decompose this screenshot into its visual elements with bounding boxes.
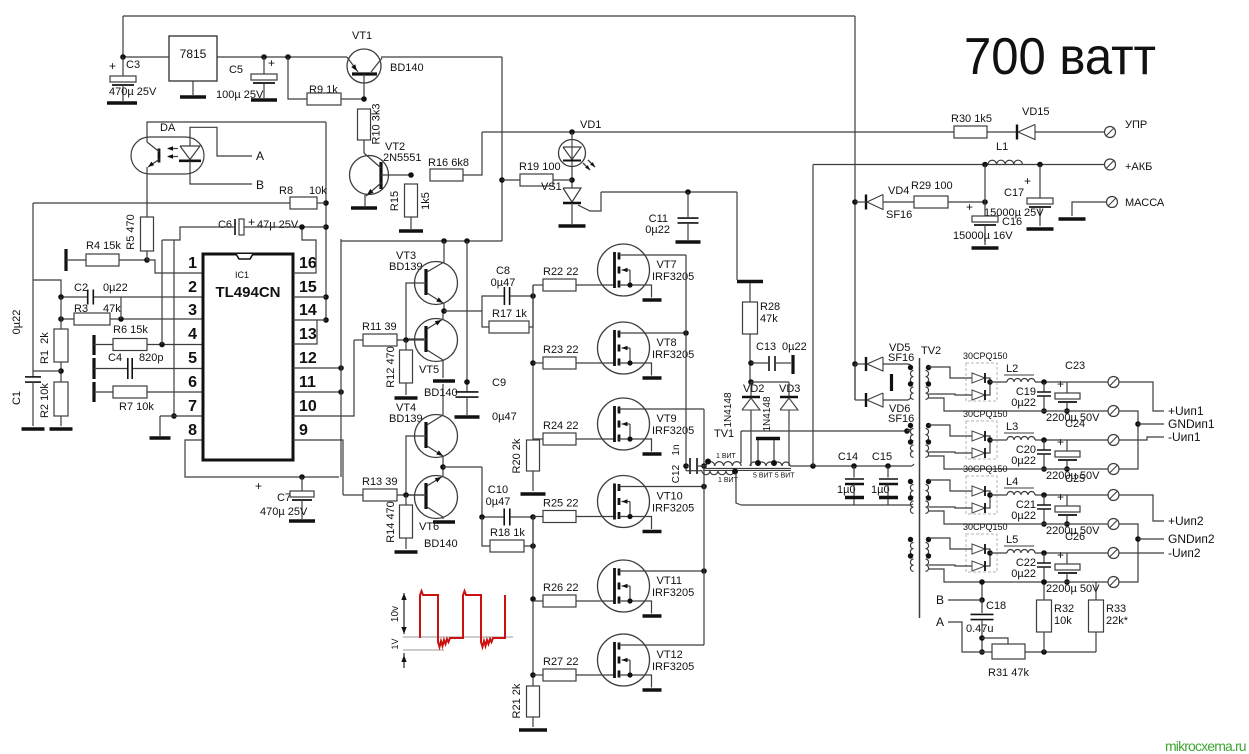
svg-text:1N4148: 1N4148 (762, 396, 773, 431)
svg-text:C18: C18 (986, 600, 1006, 612)
pin 10 (299, 398, 317, 415)
resistor R32 (1037, 579, 1075, 652)
svg-text:12: 12 (299, 350, 317, 367)
wire UPR control line (482, 129, 954, 135)
inductor L4 (990, 476, 1067, 498)
svg-text:0µ22: 0µ22 (1011, 397, 1036, 409)
svg-text:5 ВИТ 5 ВИТ: 5 ВИТ 5 ВИТ (753, 473, 795, 480)
resistor R15 (389, 184, 432, 231)
svg-text:УПР: УПР (1125, 119, 1147, 131)
capacitor C5 (216, 56, 277, 101)
thyristor VS1 (541, 181, 601, 226)
pin 5 (188, 350, 197, 367)
svg-text:7: 7 (188, 398, 197, 415)
svg-text:TV2: TV2 (921, 345, 941, 357)
transistor VT1 (347, 30, 424, 102)
svg-text:VD15: VD15 (1022, 106, 1050, 118)
svg-text:IC1: IC1 (235, 270, 249, 280)
svg-text:7815: 7815 (180, 47, 207, 61)
diode VD2 (723, 382, 764, 466)
svg-text:470µ 25V: 470µ 25V (260, 506, 308, 518)
capacitor C22 (1011, 553, 1051, 585)
svg-text:30CPQ150: 30CPQ150 (963, 351, 1008, 361)
svg-text:C14: C14 (838, 451, 858, 463)
pin 16 (299, 255, 317, 272)
resistor R9 (307, 84, 364, 105)
svg-text:SF16: SF16 (888, 352, 914, 364)
wire gate bus upper (530, 285, 536, 440)
terminal out 1 (1067, 377, 1119, 388)
regulator 7815 (169, 36, 217, 97)
capacitor C20 (1011, 440, 1051, 472)
svg-text:R31 47k: R31 47k (988, 667, 1029, 679)
resistor R2 (39, 382, 73, 429)
wire pin11 (293, 389, 344, 395)
svg-text:VS1: VS1 (541, 181, 562, 193)
svg-text:VT9: VT9 (657, 413, 677, 425)
svg-text:15000µ 16V: 15000µ 16V (953, 230, 1013, 242)
svg-text:VD1: VD1 (580, 119, 601, 131)
svg-text:+: + (255, 479, 262, 493)
wire drain bus B (701, 409, 707, 645)
svg-text:8: 8 (188, 422, 197, 439)
resistor R31 (982, 638, 1096, 679)
capacitor C21 (1011, 495, 1051, 527)
inductor L1 (988, 141, 1022, 165)
transformer TV2 core (920, 345, 942, 618)
wire TV1 bottom loop (741, 504, 911, 506)
transformer TV2 primary winding 4 (908, 537, 914, 572)
resistor R14 (385, 495, 418, 552)
wire output 1 routing (1119, 382, 1215, 469)
capacitor C2 (58, 282, 203, 305)
svg-text:L2: L2 (1006, 363, 1018, 375)
diode VD6 (855, 364, 914, 425)
svg-text:-Uип1: -Uип1 (1168, 430, 1201, 444)
svg-text:470µ 25V: 470µ 25V (109, 86, 157, 98)
svg-text:C2: C2 (74, 282, 88, 294)
svg-text:R14 470: R14 470 (385, 501, 397, 543)
transistor VT10 (598, 476, 707, 532)
capacitor C8 (482, 265, 533, 311)
terminal rail 3 (1108, 519, 1119, 530)
transistor VT12 (598, 634, 705, 690)
svg-text:BD140: BD140 (390, 62, 424, 74)
svg-text:VT10: VT10 (657, 491, 683, 503)
svg-text:TV1: TV1 (714, 428, 734, 440)
resistor R22 (533, 266, 614, 291)
capacitor C25 (1046, 473, 1100, 537)
svg-text:1 ВИТ: 1 ВИТ (716, 453, 737, 460)
svg-text:0µ22: 0µ22 (1011, 455, 1036, 467)
svg-text:VT11: VT11 (657, 575, 682, 587)
wire pin9 (293, 440, 343, 495)
pin 11 (299, 374, 316, 391)
inductor L3 (990, 421, 1067, 443)
capacitor C11 (645, 192, 700, 242)
svg-text:R33: R33 (1106, 603, 1126, 615)
rectifier VD11 VD12 30CPQ150 (929, 464, 1008, 514)
svg-text:C13: C13 (756, 341, 776, 353)
transistor VT4 (389, 384, 458, 495)
svg-text:R5 470: R5 470 (125, 214, 137, 249)
transistor VT5 (406, 311, 458, 399)
svg-text:A: A (256, 149, 264, 163)
pin 1 (188, 255, 197, 272)
svg-text:B: B (256, 178, 264, 192)
svg-text:+: + (1024, 174, 1031, 188)
svg-text:4: 4 (188, 326, 197, 343)
svg-text:B: B (936, 593, 944, 607)
svg-text:R22 22: R22 22 (543, 266, 578, 278)
svg-text:14: 14 (299, 302, 317, 319)
capacitor C14 (837, 451, 864, 505)
svg-text:R13 39: R13 39 (362, 476, 397, 488)
svg-text:C24: C24 (1065, 418, 1085, 430)
transformer TV2 primary winding 1 (908, 365, 914, 400)
svg-text:22k*: 22k* (1106, 615, 1129, 627)
svg-text:+: + (109, 59, 116, 73)
svg-text:VD3: VD3 (779, 383, 800, 395)
wire opto A (190, 127, 264, 163)
svg-text:R12 470: R12 470 (385, 346, 397, 388)
node frame right (323, 122, 329, 323)
capacitor C19 (1011, 382, 1051, 414)
waveform trace (420, 591, 505, 647)
transformer TV2 secondary winding 3 (926, 479, 932, 514)
svg-text:L5: L5 (1006, 534, 1018, 546)
svg-text:VT5: VT5 (419, 364, 439, 376)
inductor L5 (990, 534, 1067, 556)
wire pin8 to C7 (185, 440, 339, 480)
svg-text:700 ватт: 700 ватт (964, 28, 1156, 86)
wire to R28 (736, 192, 738, 280)
transformer TV1 secondary (750, 439, 912, 480)
transformer TV2 primary winding 3 (908, 479, 914, 514)
svg-text:0µ47: 0µ47 (492, 411, 517, 423)
svg-text:+Uип1: +Uип1 (1168, 404, 1204, 418)
wire right drop (852, 16, 858, 400)
watermark (1165, 738, 1246, 754)
svg-text:C17: C17 (1004, 187, 1024, 199)
resistor R1 (39, 319, 68, 382)
svg-text:C9: C9 (492, 377, 506, 389)
wire output rail 2 (929, 456, 1109, 469)
svg-text:C26: C26 (1065, 531, 1085, 543)
wire pin12 (293, 365, 344, 371)
svg-text:+АКБ: +АКБ (1125, 161, 1152, 173)
svg-text:C23: C23 (1065, 360, 1085, 372)
diode VD15 (987, 106, 1104, 140)
svg-text:VT1: VT1 (352, 30, 372, 42)
wire pin14 (293, 319, 326, 321)
transistor VT8 (598, 322, 695, 378)
svg-text:2k: 2k (39, 332, 51, 344)
resistor R33 (1089, 582, 1129, 652)
capacitor C10 (479, 467, 536, 526)
wire VS1 gate line (601, 189, 737, 195)
resistor R8 (33, 185, 327, 209)
svg-text:R15: R15 (389, 191, 401, 211)
svg-text:GNDип2: GNDип2 (1168, 532, 1215, 546)
svg-text:0µ22: 0µ22 (1011, 510, 1036, 522)
svg-text:6: 6 (188, 374, 197, 391)
terminal out 3 (1067, 490, 1119, 501)
transistor VT6 (406, 467, 458, 550)
optocoupler DA (131, 122, 326, 217)
svg-text:0µ22: 0µ22 (103, 282, 128, 294)
inductor L2 (990, 363, 1067, 385)
pin 3 (188, 302, 197, 319)
wire vcc frame (340, 239, 342, 477)
svg-text:R21 2k: R21 2k (511, 683, 523, 718)
svg-text:10v: 10v (390, 606, 401, 622)
svg-text:R18 1k: R18 1k (490, 527, 525, 539)
terminal out 4 (1067, 548, 1119, 559)
svg-text:L3: L3 (1006, 421, 1018, 433)
svg-text:30CPQ150: 30CPQ150 (963, 464, 1008, 474)
wire top rail (123, 16, 855, 57)
op-amp U1 IC1 TL494CN (203, 254, 293, 460)
transistor VT9 (598, 398, 705, 454)
svg-text:0µ22: 0µ22 (645, 224, 670, 236)
svg-text:R17 1k: R17 1k (492, 308, 527, 320)
svg-text:1: 1 (188, 255, 197, 272)
capacitor C17 (984, 165, 1054, 230)
svg-text:R11 39: R11 39 (362, 321, 397, 333)
resistor R29 (911, 165, 988, 209)
capacitor C24 (1046, 418, 1100, 482)
transistor VT2 (350, 141, 422, 208)
resistor R17 (482, 293, 536, 333)
capacitor C7 (255, 477, 315, 521)
svg-text:C4: C4 (108, 352, 122, 364)
svg-text:C3: C3 (126, 59, 140, 71)
svg-text:R29 100: R29 100 (911, 180, 953, 192)
transformer TV2 primary winding 2 (908, 423, 914, 458)
svg-text:TL494CN: TL494CN (215, 284, 280, 301)
wire pin13 (293, 320, 317, 344)
svg-text:+Uип2: +Uип2 (1168, 514, 1204, 528)
capacitor C3 (107, 57, 157, 103)
svg-text:SF16: SF16 (886, 209, 912, 221)
pin 6 (188, 374, 197, 391)
wire gate bus lower (530, 517, 536, 686)
svg-text:C25: C25 (1065, 473, 1085, 485)
svg-text:R2: R2 (39, 404, 51, 418)
pin 12 (299, 350, 317, 367)
svg-text:R16 6k8: R16 6k8 (428, 157, 469, 169)
wire drain bus A (683, 255, 689, 471)
wire output 2 routing (1119, 495, 1215, 582)
wire opto B (190, 161, 264, 192)
svg-text:2: 2 (188, 279, 197, 296)
svg-text:+: + (1057, 377, 1064, 391)
resistor R6 (94, 324, 203, 355)
transformer TV2 secondary winding 1 (926, 365, 932, 400)
resistor R25 (533, 498, 614, 523)
svg-text:1µ0: 1µ0 (871, 484, 890, 496)
terminal MASSA (1059, 197, 1165, 220)
svg-text:R30 1k5: R30 1k5 (951, 113, 992, 125)
resistor R12 (385, 340, 418, 398)
diode VD3 (751, 382, 800, 466)
svg-text:IRF3205: IRF3205 (652, 661, 694, 673)
terminal rail 2 (1108, 464, 1119, 475)
svg-text:IRF3205: IRF3205 (652, 271, 694, 283)
svg-text:+: + (966, 200, 973, 214)
transistor VT11 (598, 560, 707, 616)
svg-text:0.47u: 0.47u (966, 623, 994, 635)
svg-text:VT7: VT7 (657, 259, 677, 271)
svg-text:R24 22: R24 22 (543, 420, 578, 432)
wire output rail 3 (929, 511, 1109, 524)
svg-text:1n: 1n (671, 444, 682, 455)
svg-text:10k: 10k (39, 383, 51, 401)
svg-text:11: 11 (299, 374, 316, 391)
capacitor C4 (94, 352, 203, 379)
wire TV2 primary connections (907, 364, 914, 505)
svg-text:100µ 25V: 100µ 25V (216, 89, 264, 101)
terminal +AKB (1105, 159, 1153, 173)
resistor R10 (358, 104, 383, 153)
transformer TV1 primary 1 (700, 428, 741, 466)
svg-text:R23 22: R23 22 (543, 344, 578, 356)
svg-text:9: 9 (299, 422, 308, 439)
title 700 watt (964, 28, 1156, 86)
wire output rail 1 (929, 398, 1109, 411)
svg-text:R28: R28 (760, 301, 780, 313)
svg-text:МАССА: МАССА (1125, 197, 1165, 209)
resistor R24 (533, 420, 614, 445)
resistor R11 (354, 321, 424, 346)
pin 14 (299, 302, 317, 319)
resistor R21 (511, 683, 547, 730)
capacitor C9 (455, 241, 517, 423)
svg-text:C12: C12 (671, 464, 682, 483)
rectifier VD9 VD10 30CPQ150 (929, 409, 1008, 459)
svg-text:BD139: BD139 (389, 413, 423, 425)
resistor R19 (502, 161, 572, 186)
wire VD anode line (741, 428, 910, 463)
svg-text:C7: C7 (277, 492, 291, 504)
wire driver +15 rail (341, 57, 505, 244)
rectifier VD7 VD8 30CPQ150 (929, 351, 1008, 401)
svg-text:1k5: 1k5 (420, 192, 432, 210)
svg-text:15: 15 (299, 279, 317, 296)
pin 9 (299, 422, 308, 439)
wire +12V rail (120, 54, 502, 60)
svg-text:1V: 1V (390, 638, 400, 649)
pin 4 (188, 326, 197, 343)
diode VD5 (855, 342, 914, 371)
wire pin7 net (150, 240, 204, 438)
transistor VT7 (598, 244, 695, 300)
svg-text:DA: DA (160, 122, 176, 134)
wire C6 to pin4 (161, 240, 163, 345)
svg-text:L4: L4 (1006, 476, 1018, 488)
pin 13 (299, 326, 317, 343)
resistor R18 (482, 517, 536, 552)
svg-text:0µ47: 0µ47 (491, 277, 516, 289)
wire output rail 4 (929, 569, 1109, 582)
svg-text:13: 13 (299, 326, 317, 343)
svg-text:30CPQ150: 30CPQ150 (963, 409, 1008, 419)
svg-text:2N5551: 2N5551 (383, 152, 422, 164)
capacitor C6 (162, 215, 326, 240)
svg-text:BD140: BD140 (424, 387, 458, 399)
svg-text:C10: C10 (488, 484, 508, 496)
svg-text:R32: R32 (1054, 603, 1074, 615)
capacitor C26 (1046, 531, 1100, 595)
transformer TV2 secondary winding 2 (926, 423, 932, 458)
svg-text:R4 15k: R4 15k (86, 240, 121, 252)
svg-text:C15: C15 (872, 451, 892, 463)
svg-text:2200µ 50V: 2200µ 50V (1046, 583, 1100, 595)
wire pin10 (293, 340, 354, 416)
svg-text:R27 22: R27 22 (543, 656, 578, 668)
node A input (936, 615, 982, 652)
svg-text:R8: R8 (279, 185, 293, 197)
svg-text:5: 5 (188, 350, 197, 367)
wire pin16 (293, 224, 316, 273)
resistor R5 (125, 214, 154, 251)
transformer TV2 secondary winding 4 (926, 537, 932, 572)
terminal out 2 (1067, 435, 1119, 446)
svg-text:R20 2k: R20 2k (511, 438, 523, 473)
svg-text:10k: 10k (309, 185, 327, 197)
transformer TV1 primary 2 (686, 469, 741, 506)
terminal UPR (1105, 119, 1148, 138)
capacitor C16 (953, 200, 1022, 248)
svg-text:0µ22: 0µ22 (782, 341, 807, 353)
svg-text:IRF3205: IRF3205 (652, 425, 694, 437)
svg-text:R6 15k: R6 15k (113, 324, 148, 336)
node VT3 VT5 emitters (441, 308, 482, 314)
svg-text:GNDип1: GNDип1 (1168, 417, 1215, 431)
svg-text:VT8: VT8 (657, 337, 677, 349)
svg-text:BD140: BD140 (424, 538, 458, 550)
svg-text:A: A (936, 615, 944, 629)
svg-text:30CPQ150: 30CPQ150 (963, 522, 1008, 532)
resistor R4 (66, 240, 203, 273)
capacitor C15 (871, 451, 898, 505)
pin 15 (299, 279, 317, 296)
diode VD4 (855, 185, 914, 221)
svg-text:VD2: VD2 (743, 383, 764, 395)
resistor R30 (951, 113, 992, 138)
resistor R13 (343, 476, 424, 501)
svg-text:47µ 25V: 47µ 25V (257, 219, 299, 231)
svg-text:+: + (1057, 435, 1064, 449)
rectifier VD13 VD14 30CPQ150 (929, 522, 1008, 572)
node B input (936, 593, 982, 607)
svg-text:10k: 10k (1054, 615, 1072, 627)
pin 7 (188, 398, 197, 415)
resistor R27 (533, 656, 614, 681)
svg-text:IRF3205: IRF3205 (652, 587, 694, 599)
svg-text:C1: C1 (11, 391, 23, 405)
resistor R26 (533, 582, 614, 607)
wire bottom column (979, 579, 985, 603)
resistor R7 (94, 382, 203, 413)
svg-text:C6: C6 (218, 219, 232, 231)
wire left rail (33, 203, 61, 377)
svg-text:VD4: VD4 (888, 185, 909, 197)
LED VD1 (559, 119, 602, 188)
resistor R3 (58, 297, 203, 325)
svg-text:R7 10k: R7 10k (119, 401, 154, 413)
